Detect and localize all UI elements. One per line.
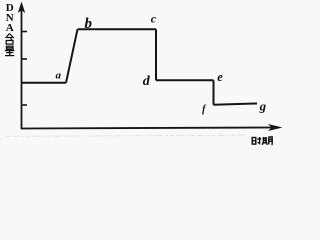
svg-text:g: g [259,99,267,114]
svg-text:e: e [217,70,223,84]
x-axis arrowhead [268,124,283,131]
svg-text:a: a [56,69,62,81]
y-axis tick 1 [22,31,27,33]
x-axis label hanzi QI (period) [262,137,272,145]
x-axis [21,128,276,129]
y-axis label hanzi LIANG (amount) [5,46,15,55]
svg-text:c: c [151,12,157,26]
y-axis arrowhead [18,2,25,14]
curve segment: level f-g [214,104,258,105]
svg-text:A: A [6,22,14,34]
curve segment: vertical drop c-d [155,29,157,80]
y-axis [21,8,23,129]
svg-text:d: d [143,74,151,89]
curve segment: level d-e [156,79,214,81]
x-axis label hanzi SHI (time) [252,137,261,144]
y-axis tick 2 [22,58,27,60]
curve segment: level b-c [78,28,157,30]
svg-text:b: b [85,16,93,32]
y-axis label hanzi HAN (content) [6,34,14,45]
y-axis tick 3 [22,104,27,106]
curve segment: vertical drop e-f [213,80,215,105]
curve segment: diagonal a-b [66,29,78,83]
curve segment: level a (from y-axis to point a) [22,82,67,84]
